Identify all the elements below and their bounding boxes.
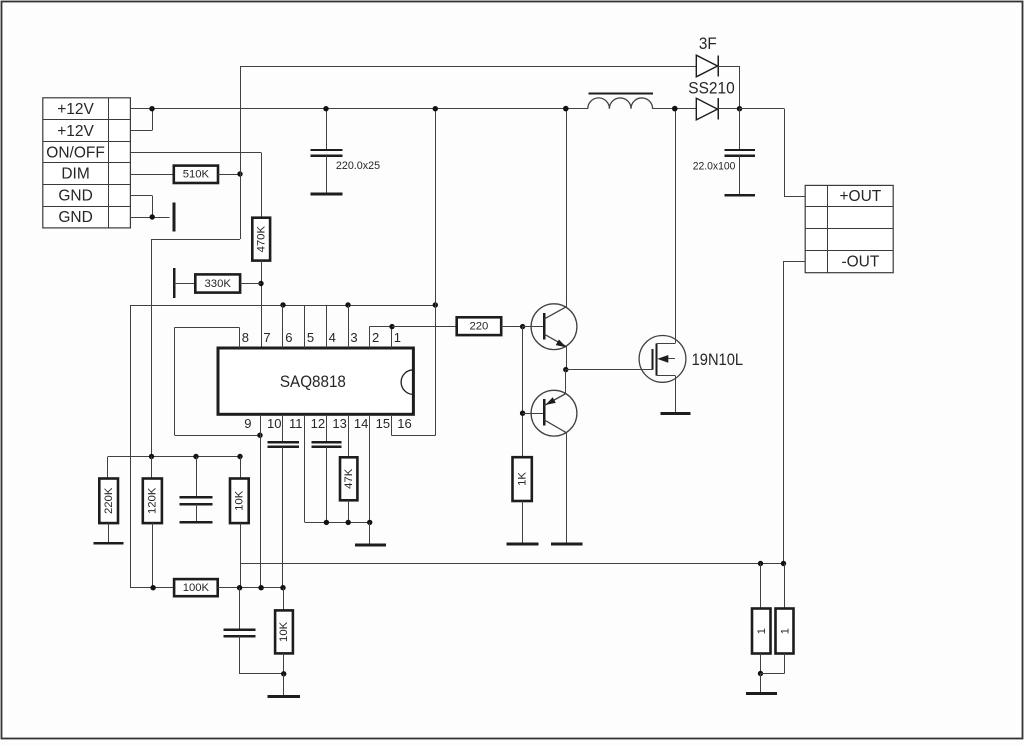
svg-text:14: 14 (354, 416, 368, 431)
svg-text:GND: GND (58, 209, 92, 226)
svg-text:120K: 120K (147, 487, 159, 514)
svg-text:220: 220 (469, 321, 488, 333)
svg-text:DIM: DIM (61, 166, 89, 183)
svg-text:9: 9 (244, 416, 251, 431)
svg-text:10: 10 (267, 416, 281, 431)
svg-text:11: 11 (289, 416, 303, 431)
svg-text:16: 16 (397, 416, 411, 431)
svg-text:6: 6 (285, 330, 292, 345)
svg-text:15: 15 (376, 416, 390, 431)
svg-text:12: 12 (311, 416, 325, 431)
svg-text:4: 4 (329, 330, 336, 345)
svg-text:220K: 220K (103, 487, 115, 514)
svg-text:8: 8 (242, 330, 249, 345)
svg-text:10K: 10K (278, 621, 290, 642)
svg-text:13: 13 (332, 416, 346, 431)
svg-text:7: 7 (263, 330, 270, 345)
svg-text:SAQ8818: SAQ8818 (280, 372, 346, 391)
svg-text:3: 3 (350, 330, 357, 345)
svg-text:47K: 47K (343, 468, 355, 489)
svg-text:220.0x25: 220.0x25 (336, 160, 380, 172)
svg-text:GND: GND (58, 187, 92, 204)
svg-text:+12V: +12V (57, 101, 94, 118)
svg-text:100K: 100K (183, 582, 210, 594)
svg-text:1: 1 (756, 628, 768, 634)
svg-text:+OUT: +OUT (840, 188, 882, 205)
svg-text:3F: 3F (699, 35, 717, 53)
svg-text:ON/OFF: ON/OFF (46, 144, 105, 161)
svg-text:2: 2 (372, 330, 379, 345)
svg-text:5: 5 (307, 330, 314, 345)
svg-text:+12V: +12V (57, 123, 94, 140)
svg-text:-OUT: -OUT (841, 254, 879, 271)
svg-text:1K: 1K (517, 472, 529, 486)
svg-text:19N10L: 19N10L (692, 350, 744, 369)
svg-text:330K: 330K (205, 278, 232, 290)
svg-text:22.0x100: 22.0x100 (693, 161, 736, 173)
svg-text:1: 1 (394, 330, 401, 345)
svg-text:SS210: SS210 (688, 79, 735, 97)
svg-text:1: 1 (780, 628, 792, 634)
svg-text:10K: 10K (234, 490, 246, 511)
svg-text:470K: 470K (255, 226, 267, 253)
svg-text:510K: 510K (183, 169, 210, 181)
